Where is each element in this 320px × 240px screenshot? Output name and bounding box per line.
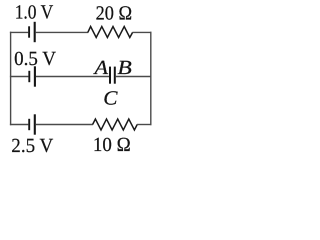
battery V1 long plate: [34, 22, 36, 42]
battery V2 short plate: [28, 71, 30, 82]
battery V2 long plate: [34, 66, 36, 86]
svg-text:20 Ω: 20 Ω: [96, 2, 133, 24]
battery V1 short plate: [28, 26, 30, 37]
battery V3 short plate: [28, 119, 30, 130]
wire top branch left: [10, 31, 28, 33]
svg-text:2.5 V: 2.5 V: [11, 135, 54, 156]
battery V3 long plate: [34, 114, 36, 134]
svg-text:C: C: [103, 87, 118, 109]
wire middle branch left: [10, 76, 29, 78]
svg-text:1.0 V: 1.0 V: [15, 2, 54, 24]
capacitor C right plate: [114, 67, 116, 84]
resistor R1 20 ohm zigzag: [88, 27, 133, 38]
svg-text:A: A: [92, 57, 109, 79]
wire top branch middle: [36, 31, 88, 33]
wire top branch right: [132, 31, 151, 33]
svg-text:0.5 V: 0.5 V: [14, 48, 56, 70]
svg-text:B: B: [117, 57, 131, 79]
svg-text:10 Ω: 10 Ω: [93, 134, 131, 156]
wire bottom branch middle: [36, 124, 93, 126]
wire middle branch right: [116, 76, 152, 78]
wire right vertical: [150, 32, 152, 126]
capacitor C left plate: [109, 67, 111, 84]
wire bottom branch right: [137, 124, 152, 126]
resistor R2 10 ohm zigzag: [93, 119, 138, 130]
wire left vertical: [10, 32, 12, 126]
wire bottom branch left: [10, 124, 28, 126]
wire middle branch middle: [36, 76, 109, 78]
